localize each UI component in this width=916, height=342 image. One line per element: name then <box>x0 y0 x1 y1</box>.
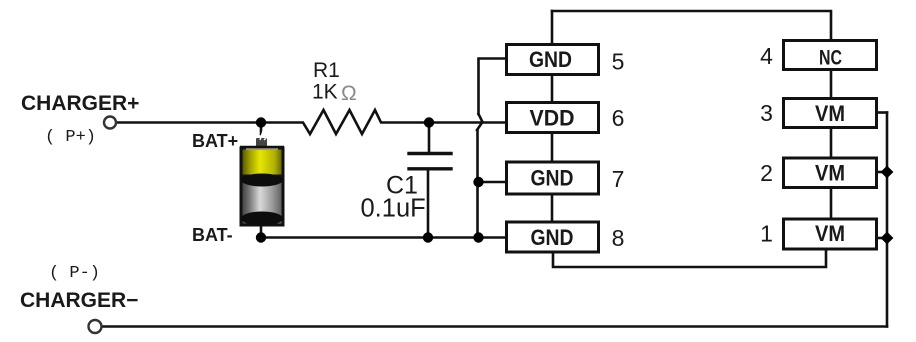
svg-text:VM: VM <box>815 221 845 246</box>
svg-text:VM: VM <box>815 101 845 126</box>
svg-text:3: 3 <box>760 100 773 126</box>
svg-text:8: 8 <box>612 225 625 251</box>
svg-text:GND: GND <box>529 47 572 72</box>
svg-text:BAT+: BAT+ <box>192 131 238 151</box>
svg-text:2: 2 <box>760 160 773 186</box>
svg-text:GND: GND <box>531 166 574 191</box>
svg-text:0.1uF: 0.1uF <box>361 195 426 223</box>
svg-text:VDD: VDD <box>530 106 575 131</box>
svg-text:1: 1 <box>760 221 773 247</box>
svg-text:VM: VM <box>815 161 845 186</box>
svg-text:4: 4 <box>760 43 773 69</box>
svg-text:Ω: Ω <box>341 82 357 105</box>
svg-text:R1: R1 <box>313 59 340 82</box>
svg-text:( P+): ( P+) <box>45 128 96 147</box>
svg-text:6: 6 <box>612 105 625 131</box>
svg-text:5: 5 <box>612 49 625 75</box>
svg-text:1K: 1K <box>312 81 338 104</box>
svg-text:BAT-: BAT- <box>192 225 233 245</box>
svg-text:GND: GND <box>531 225 574 250</box>
svg-text:CHARGER+: CHARGER+ <box>21 92 139 115</box>
svg-text:NC: NC <box>819 47 842 70</box>
svg-text:( P-): ( P-) <box>49 264 100 283</box>
svg-text:CHARGER−: CHARGER− <box>20 289 138 312</box>
svg-text:7: 7 <box>612 166 625 192</box>
